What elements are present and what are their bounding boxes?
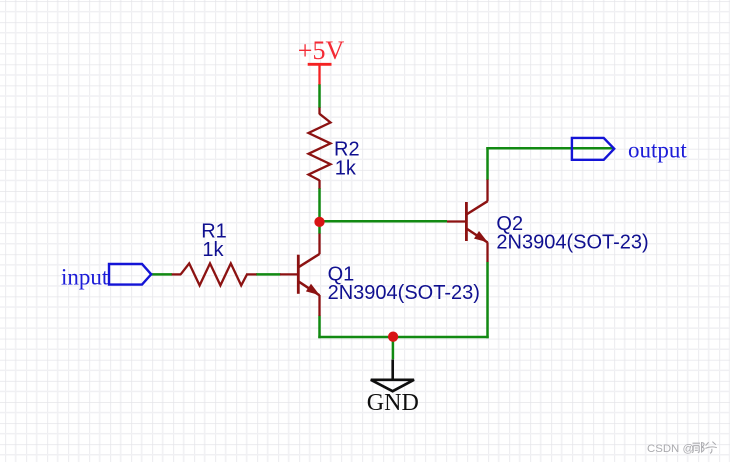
svg-text:output: output [628, 138, 687, 163]
svg-text:2N3904(SOT-23): 2N3904(SOT-23) [496, 231, 648, 253]
svg-text:2N3904(SOT-23): 2N3904(SOT-23) [328, 282, 480, 304]
svg-text:CSDN @: CSDN @ [647, 443, 694, 455]
svg-text:input: input [61, 264, 109, 289]
svg-text:1k: 1k [335, 158, 357, 180]
svg-text:GND: GND [367, 390, 419, 416]
svg-text:+5V: +5V [298, 36, 345, 65]
svg-text:1k: 1k [202, 239, 224, 261]
